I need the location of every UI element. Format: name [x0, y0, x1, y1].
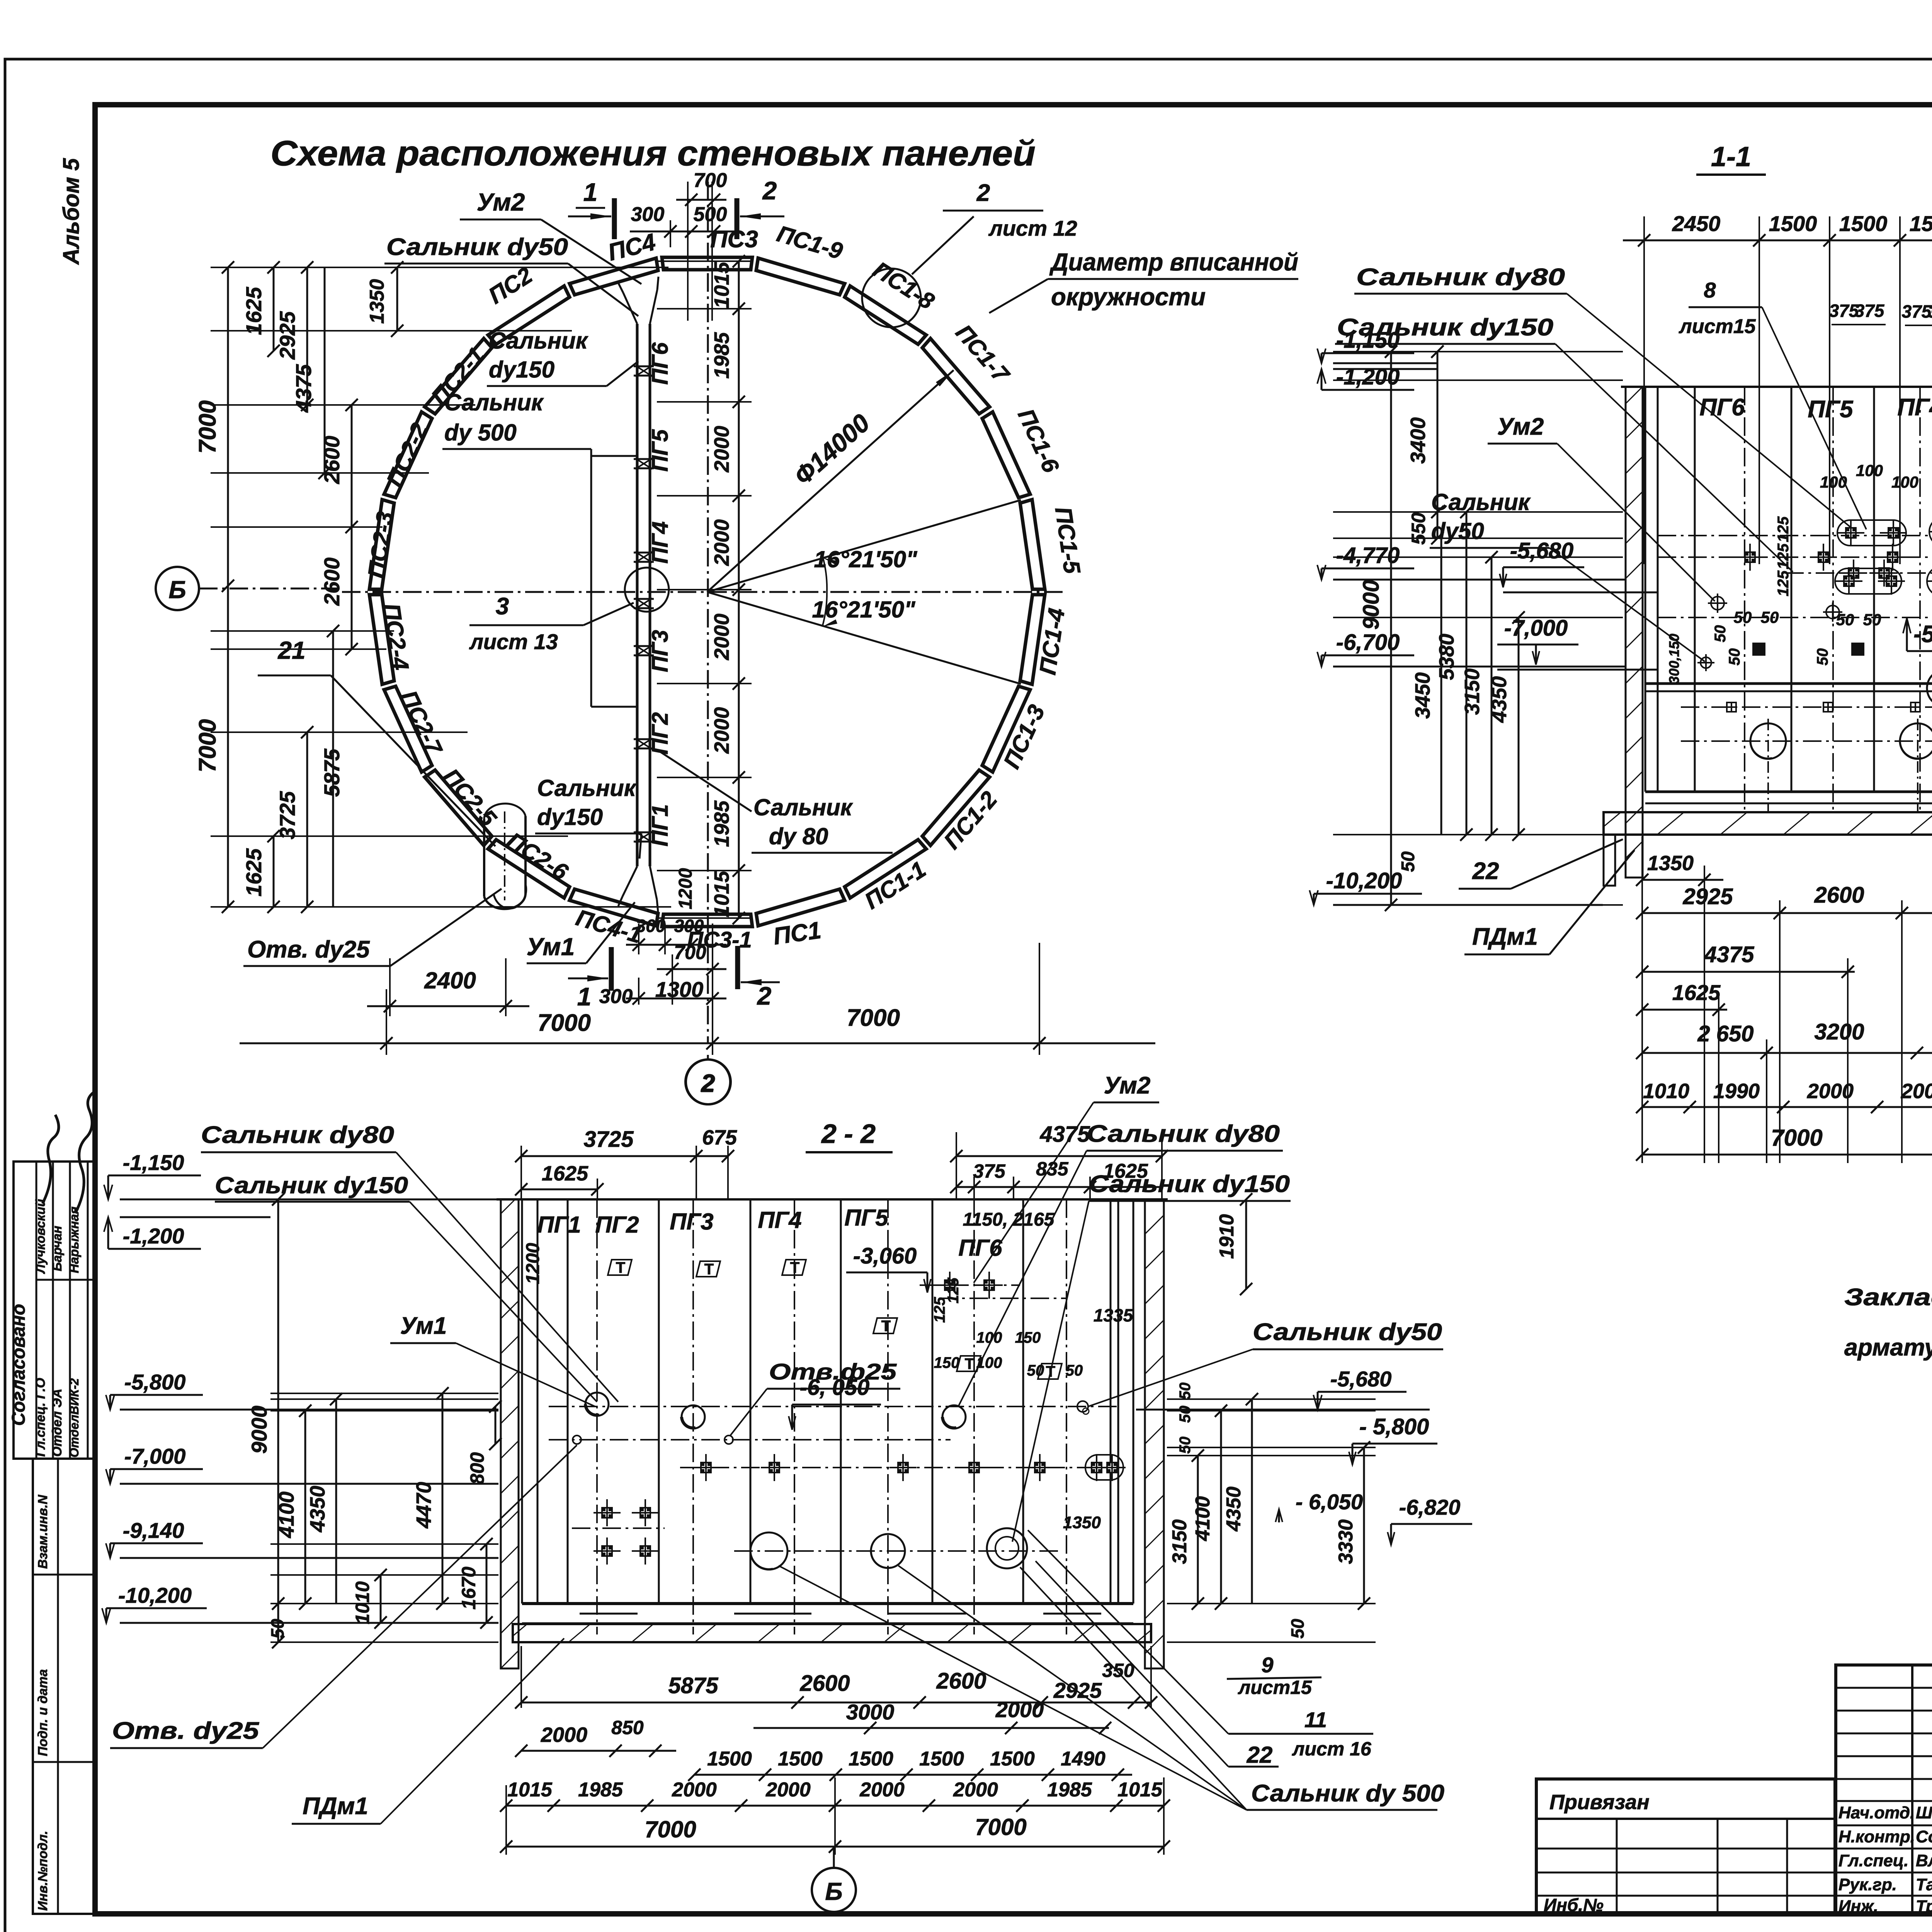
svg-text:2925: 2925 [1053, 1678, 1102, 1702]
svg-text:лист 16: лист 16 [1292, 1738, 1372, 1760]
svg-text:2000: 2000 [953, 1779, 998, 1801]
svg-text:-9,140: -9,140 [123, 1518, 184, 1543]
svg-text:9: 9 [1261, 1653, 1273, 1677]
svg-text:Сальник dу150: Сальник dу150 [215, 1172, 408, 1198]
svg-text:4100: 4100 [275, 1492, 298, 1538]
svg-text:100: 100 [1856, 461, 1883, 480]
svg-text:1500: 1500 [707, 1748, 752, 1770]
svg-text:Взам.инв.N: Взам.инв.N [36, 1494, 50, 1569]
svg-text:2600: 2600 [320, 558, 344, 606]
svg-text:ОтделВИК-2: ОтделВИК-2 [67, 1378, 81, 1458]
wall panel ПС2-3 [369, 500, 394, 589]
1-1 bottom small squares [1727, 702, 1736, 712]
axis bubble Б below 2-2 [812, 1868, 856, 1912]
svg-text:Третьякова: Третьякова [1916, 1897, 1932, 1916]
svg-text:375: 375 [1902, 301, 1932, 321]
svg-text:лист 12: лист 12 [988, 216, 1077, 240]
svg-text:3200: 3200 [1814, 1019, 1864, 1044]
svg-text:Инб.№: Инб.№ [1544, 1895, 1604, 1915]
svg-text:Ум2: Ум2 [1104, 1072, 1151, 1099]
svg-text:375: 375 [973, 1160, 1006, 1182]
svg-text:ПГ5: ПГ5 [844, 1205, 889, 1231]
svg-text:2000: 2000 [710, 519, 733, 566]
svg-text:Т: Т [704, 1261, 714, 1278]
svg-text:7000: 7000 [194, 400, 221, 454]
svg-text:835: 835 [1036, 1158, 1069, 1180]
svg-text:-5,800: -5,800 [1913, 621, 1932, 648]
wall panel ПС1-1 [845, 840, 926, 898]
2-2 interior panel joints [567, 1199, 569, 1604]
svg-text:ПГ2: ПГ2 [648, 712, 673, 755]
wall panel ПС2-6 [488, 840, 570, 898]
svg-text:3725: 3725 [275, 791, 299, 839]
svg-text:100: 100 [1891, 473, 1918, 491]
wall panel ПС3 [662, 257, 752, 270]
svg-text:1015: 1015 [507, 1779, 553, 1801]
centre lines of plan [342, 591, 1066, 593]
svg-text:-6,820: -6,820 [1399, 1495, 1461, 1519]
svg-text:-6, 050: -6, 050 [800, 1375, 870, 1400]
wall panel ПС2 [488, 286, 570, 344]
svg-text:1150, 2165: 1150, 2165 [963, 1209, 1055, 1230]
2-2 top right small squares [944, 1279, 956, 1291]
svg-text:арматуре перегородочной панел: арматуре перегородочной панели [1844, 1334, 1932, 1361]
svg-text:2: 2 [762, 176, 777, 205]
2-2 left wall hatched [501, 1199, 519, 1668]
svg-text:50: 50 [1761, 608, 1779, 626]
svg-text:3150: 3150 [1461, 668, 1484, 715]
wall panel ПС3-1 [662, 914, 752, 927]
svg-text:1015: 1015 [710, 871, 733, 917]
1-1 floor stadium [1927, 670, 1932, 707]
partition strip (ПГ panels row) [636, 324, 639, 866]
svg-text:ПГ6: ПГ6 [1699, 394, 1745, 421]
wall panel ПС1-9 [756, 258, 845, 295]
svg-text:2000: 2000 [1807, 1080, 1854, 1103]
svg-text:2: 2 [976, 180, 990, 206]
svg-text:50: 50 [267, 1619, 287, 1639]
svg-text:Власенко: Власенко [1916, 1851, 1932, 1870]
svg-text:dу50: dу50 [1431, 518, 1484, 544]
wall panel ПС1-3 [982, 686, 1030, 772]
top small dims 700 300 500 [687, 182, 689, 321]
svg-text:-5,680: -5,680 [1330, 1367, 1392, 1391]
svg-text:dу150: dу150 [537, 804, 603, 830]
svg-text:Инв.№подл.: Инв.№подл. [36, 1831, 50, 1911]
svg-text:Барчан: Барчан [50, 1226, 64, 1271]
wall panel ПС4-1 [570, 889, 658, 926]
signature scribbles [43, 1115, 59, 1204]
svg-text:1625: 1625 [542, 1162, 588, 1185]
wall panel ПС2-2 [384, 412, 432, 498]
svg-text:5875: 5875 [320, 748, 344, 797]
svg-text:4100: 4100 [1192, 1496, 1214, 1541]
svg-text:ПГ3: ПГ3 [670, 1209, 713, 1235]
1-1 interior panel joints [1694, 387, 1696, 792]
2-2 floor double line [522, 1602, 1133, 1605]
svg-text:16°21'50": 16°21'50" [812, 597, 916, 622]
wall panel ПС2-7 [384, 686, 432, 772]
2-2 right wall hatched [1145, 1199, 1164, 1668]
svg-text:Гл.спец.: Гл.спец. [1838, 1851, 1908, 1870]
svg-text:Сальник dу150: Сальник dу150 [1089, 1171, 1290, 1197]
svg-text:ПГ4: ПГ4 [648, 521, 673, 564]
svg-text:4470: 4470 [412, 1482, 435, 1529]
detail callout 3 лист 13 [625, 568, 669, 612]
wall panel ПС2-5 [425, 770, 492, 845]
1-1 black plates [1753, 643, 1765, 655]
radial line +16 [707, 592, 1021, 684]
wall panel ПС2-4 [369, 595, 394, 684]
svg-text:1015: 1015 [710, 262, 733, 308]
svg-text:375: 375 [1928, 301, 1932, 321]
svg-text:1985: 1985 [710, 332, 733, 379]
bottom dim chain 2400 [389, 958, 391, 1016]
1-1 small circles [1711, 597, 1724, 610]
1-1 left wall (hatched) [1626, 387, 1643, 878]
1-1 left vertical chains [1390, 352, 1392, 905]
svg-text:Закладные изделия(зачерненные: Закладные изделия(зачерненные) приварить… [1844, 1284, 1932, 1311]
svg-text:2000: 2000 [765, 1779, 811, 1801]
svg-text:2000: 2000 [541, 1723, 587, 1747]
svg-text:Сальник dу80: Сальник dу80 [201, 1122, 394, 1148]
svg-text:1200: 1200 [675, 868, 696, 909]
svg-text:Альбом 5: Альбом 5 [59, 158, 84, 265]
svg-text:1990: 1990 [1713, 1080, 1760, 1103]
svg-text:1985: 1985 [578, 1779, 623, 1801]
svg-text:50: 50 [1726, 648, 1743, 666]
svg-text:1015: 1015 [1117, 1779, 1163, 1801]
svg-text:1625: 1625 [1672, 980, 1721, 1005]
svg-text:Согласовано: Согласовано [9, 1304, 29, 1426]
left dim chains of plan [211, 267, 668, 268]
svg-text:ПГ3: ПГ3 [648, 630, 673, 672]
partition neck bottom [622, 866, 637, 896]
svg-text:675: 675 [702, 1126, 737, 1149]
svg-text:2600: 2600 [936, 1668, 986, 1694]
svg-text:3450: 3450 [1411, 672, 1434, 719]
svg-text:1500: 1500 [1910, 211, 1932, 236]
svg-text:1350: 1350 [1647, 852, 1694, 875]
title block: tall grid [1836, 1665, 1932, 1915]
svg-text:2600: 2600 [1814, 883, 1864, 908]
svg-text:100: 100 [1820, 473, 1847, 491]
svg-text:ПГ1: ПГ1 [537, 1212, 581, 1238]
svg-text:3: 3 [496, 593, 509, 620]
svg-text:3330: 3330 [1335, 1519, 1357, 1564]
wall panel ПС1-2 [922, 770, 990, 845]
svg-text:7000: 7000 [975, 1814, 1026, 1840]
svg-text:150: 150 [934, 1354, 960, 1371]
wall panel ПС1-7 [922, 338, 990, 414]
svg-text:ПГ1: ПГ1 [648, 804, 673, 847]
2-2 panel centrelines [596, 1199, 598, 1634]
svg-text:7000: 7000 [537, 1010, 591, 1036]
wall panel ПС1-6 [982, 412, 1030, 498]
svg-text:Ум1: Ум1 [527, 933, 575, 961]
svg-text:1: 1 [577, 982, 592, 1011]
1-1 top edge [1621, 386, 1932, 388]
svg-text:850: 850 [611, 1717, 644, 1738]
svg-text:Нач.отд.: Нач.отд. [1838, 1803, 1915, 1822]
svg-text:3000: 3000 [846, 1700, 895, 1724]
svg-text:-1,200: -1,200 [123, 1224, 184, 1248]
svg-text:2600: 2600 [799, 1671, 850, 1696]
svg-text:300: 300 [636, 916, 666, 936]
svg-text:Сальник: Сальник [444, 389, 544, 415]
svg-text:Таутамышева: Таутамышева [1916, 1875, 1932, 1894]
svg-text:Т: Т [965, 1355, 974, 1372]
svg-text:50: 50 [1066, 1362, 1083, 1379]
svg-text:2000: 2000 [995, 1697, 1044, 1722]
svg-text:ПГ4: ПГ4 [758, 1207, 801, 1233]
2-2 top edge [497, 1198, 1168, 1201]
svg-text:50: 50 [1836, 611, 1854, 629]
svg-text:-5,680: -5,680 [1510, 538, 1573, 563]
svg-text:1500: 1500 [1839, 211, 1888, 236]
svg-text:500: 500 [694, 203, 727, 226]
svg-text:300: 300 [674, 916, 704, 936]
svg-text:2400: 2400 [424, 968, 476, 993]
svg-text:8: 8 [1704, 278, 1716, 302]
svg-text:2000: 2000 [859, 1779, 905, 1801]
svg-text:50: 50 [1177, 1437, 1194, 1454]
2-2 wall feet below slab [501, 1668, 519, 1670]
svg-text:1490: 1490 [1061, 1748, 1105, 1770]
svg-text:Ум2: Ум2 [477, 188, 525, 216]
svg-text:7000: 7000 [645, 1816, 696, 1842]
svg-text:Сальник: Сальник [537, 775, 637, 801]
svg-text:ПГ4: ПГ4 [1897, 394, 1932, 421]
svg-text:-1,150: -1,150 [1336, 328, 1400, 353]
svg-text:1500: 1500 [778, 1748, 823, 1770]
svg-text:4350: 4350 [1488, 676, 1511, 723]
svg-text:3400: 3400 [1406, 417, 1430, 464]
svg-text:Подп. и дата: Подп. и дата [36, 1669, 50, 1756]
2-2 T marks [608, 1260, 632, 1275]
1-1 bottom slab (hatched) [1604, 812, 1932, 835]
svg-text:Диаметр вписанной: Диаметр вписанной [1049, 248, 1298, 276]
svg-text:Инж.: Инж. [1838, 1897, 1878, 1916]
svg-text:Т: Т [616, 1259, 625, 1276]
svg-text:375: 375 [1855, 301, 1885, 321]
svg-text:Н.контр.: Н.контр. [1838, 1827, 1915, 1846]
svg-text:1985: 1985 [1047, 1779, 1092, 1801]
svg-text:50: 50 [1814, 648, 1831, 666]
svg-text:7000: 7000 [847, 1005, 900, 1031]
2-2 dim rows below [521, 1702, 1151, 1704]
svg-text:300: 300 [599, 985, 633, 1008]
svg-text:Рук.гр.: Рук.гр. [1838, 1875, 1897, 1894]
svg-text:Сальник dу80: Сальник dу80 [1356, 264, 1565, 291]
svg-text:- 6,050: - 6,050 [1296, 1490, 1363, 1514]
svg-text:1985: 1985 [710, 800, 733, 847]
angle arcs [823, 558, 827, 592]
2-2 dash-dot horizontals [549, 1406, 1121, 1407]
svg-text:лист15: лист15 [1678, 315, 1756, 338]
svg-text:окружности: окружности [1051, 283, 1206, 311]
wall panel ПС2-1 [425, 338, 492, 414]
bottom dim chain 7000 7000 [240, 1043, 1155, 1044]
svg-text:-7,000: -7,000 [124, 1444, 186, 1468]
svg-text:550: 550 [1408, 512, 1429, 545]
1-1 inner wall faces [1645, 387, 1646, 792]
svg-text:-1,150: -1,150 [123, 1150, 184, 1175]
svg-text:dу 80: dу 80 [769, 823, 828, 849]
svg-text:1010: 1010 [1643, 1080, 1689, 1103]
svg-text:-5,800: -5,800 [124, 1370, 186, 1394]
svg-text:Т: Т [790, 1259, 799, 1276]
axis bubble 2 above [686, 1060, 731, 1104]
svg-text:2000: 2000 [672, 1779, 717, 1801]
svg-text:11: 11 [1304, 1708, 1327, 1732]
axis bubble 2 below plan [685, 1060, 730, 1104]
svg-text:125: 125 [945, 1277, 962, 1303]
svg-text:50: 50 [1712, 625, 1729, 643]
svg-text:1350: 1350 [366, 279, 388, 324]
partition joint marks [634, 366, 654, 367]
wall panel ПС1-8 [845, 286, 926, 344]
svg-text:1500: 1500 [849, 1748, 893, 1770]
wall panel ПС1-5 [1020, 500, 1045, 589]
svg-text:Отв. dу25: Отв. dу25 [247, 936, 370, 963]
vertical dimension chain right of strip [738, 261, 740, 918]
svg-text:2600: 2600 [320, 436, 344, 485]
wall panel ПС1 [756, 889, 845, 926]
svg-text:Сальник: Сальник [753, 794, 853, 820]
2-2 plate squares mid row [700, 1462, 712, 1473]
left stamp upper table [14, 1162, 95, 1459]
svg-text:Привязан: Привязан [1549, 1791, 1650, 1814]
salnik du500 pipe stub bottom-left [483, 819, 485, 896]
svg-text:22: 22 [1247, 1742, 1273, 1768]
svg-text:ПДм1: ПДм1 [303, 1793, 368, 1820]
svg-text:5875: 5875 [668, 1673, 718, 1698]
svg-text:7000: 7000 [194, 719, 221, 772]
2-2 right chains [1197, 1456, 1199, 1604]
svg-text:Отдел ЭА: Отдел ЭА [50, 1389, 65, 1457]
svg-text:2: 2 [701, 1070, 715, 1097]
svg-text:4350: 4350 [1223, 1486, 1245, 1532]
svg-text:50: 50 [1398, 851, 1418, 872]
1-1 embedded plate squares row1 [1744, 551, 1756, 563]
diameter arrow Ф14000 [707, 370, 954, 592]
svg-text:2 - 2: 2 - 2 [821, 1119, 876, 1149]
svg-text:Сальник: Сальник [1431, 489, 1531, 515]
svg-text:1010: 1010 [352, 1581, 373, 1624]
partition neck top [623, 293, 637, 324]
svg-text:ПГ6: ПГ6 [648, 342, 673, 384]
svg-text:лист15: лист15 [1238, 1677, 1312, 1698]
svg-text:ПГ5: ПГ5 [648, 429, 673, 471]
2-2 left chains [277, 1199, 279, 1642]
svg-text:-7,000: -7,000 [1504, 616, 1568, 641]
svg-text:1500: 1500 [919, 1748, 964, 1770]
svg-text:1350: 1350 [1063, 1513, 1101, 1532]
wall panel ПС4 [570, 258, 658, 295]
svg-text:50: 50 [1734, 608, 1752, 626]
1-1 stadium groups [1837, 520, 1906, 546]
svg-text:7000: 7000 [1771, 1125, 1822, 1151]
svg-text:4375: 4375 [1039, 1122, 1090, 1147]
svg-text:4375: 4375 [1704, 942, 1754, 967]
2-2 extension verticals below [505, 1785, 507, 1855]
left stamp lower table [33, 1459, 95, 1914]
svg-text:- 5,800: - 5,800 [1359, 1414, 1429, 1439]
svg-text:Сокольская: Сокольская [1916, 1827, 1932, 1846]
svg-text:50: 50 [1863, 611, 1881, 629]
bracket for dу500 zone [590, 449, 592, 707]
svg-text:2450: 2450 [1672, 211, 1721, 236]
svg-text:125: 125 [1775, 516, 1792, 542]
svg-text:Сальник dу50: Сальник dу50 [1253, 1319, 1442, 1345]
svg-text:1335: 1335 [1094, 1305, 1134, 1325]
svg-text:Сальник dу50: Сальник dу50 [386, 234, 568, 260]
wall panel ПС1-4 [1020, 595, 1045, 684]
svg-text:-10,200: -10,200 [118, 1583, 192, 1607]
svg-text:Т: Т [881, 1318, 891, 1335]
svg-text:Б: Б [825, 1878, 842, 1905]
svg-text:1500: 1500 [1769, 211, 1817, 236]
svg-text:5380: 5380 [1435, 634, 1458, 680]
svg-text:Лучковский: Лучковский [33, 1199, 48, 1274]
svg-text:лист 13: лист 13 [469, 629, 558, 654]
svg-text:50: 50 [1177, 1406, 1194, 1423]
svg-text:2000: 2000 [1901, 1080, 1932, 1103]
2-2 top dims [521, 1155, 729, 1157]
svg-text:2: 2 [757, 981, 772, 1010]
svg-text:Отв. dу25: Отв. dу25 [112, 1718, 260, 1744]
svg-text:Сальник dу80: Сальник dу80 [1087, 1121, 1280, 1147]
svg-text:dу150: dу150 [489, 357, 554, 383]
svg-text:ПС3: ПС3 [710, 226, 758, 253]
svg-text:Гл.спец. Г.О: Гл.спец. Г.О [33, 1378, 48, 1457]
svg-text:Сальник: Сальник [489, 328, 588, 354]
1-1 squares row2 [1848, 567, 1859, 579]
svg-text:dу 500: dу 500 [444, 420, 517, 446]
svg-text:Шейко: Шейко [1916, 1803, 1932, 1822]
svg-text:50: 50 [1177, 1383, 1194, 1400]
svg-text:300: 300 [631, 203, 665, 226]
svg-text:1625: 1625 [241, 848, 266, 896]
1-1 top dimension row [1623, 240, 1932, 241]
svg-text:4375: 4375 [291, 364, 316, 413]
svg-text:2 650: 2 650 [1697, 1021, 1753, 1046]
привязан block [1536, 1779, 1835, 1915]
svg-text:4350: 4350 [306, 1486, 329, 1532]
svg-text:Б: Б [168, 576, 186, 604]
2-2 square group left [601, 1507, 613, 1519]
svg-text:ПГ6: ПГ6 [958, 1235, 1002, 1261]
svg-text:Нарыжная: Нарыжная [67, 1206, 81, 1273]
svg-text:125: 125 [1775, 570, 1792, 596]
svg-text:700: 700 [674, 942, 706, 963]
1-1 top extension verticals [1643, 216, 1645, 564]
svg-text:350: 350 [1102, 1660, 1134, 1681]
svg-text:Схема расположения стеновых п: Схема расположения стеновых панелей [270, 134, 1036, 173]
extension verticals below 1-1 [1641, 837, 1643, 1163]
svg-text:3725: 3725 [583, 1127, 634, 1152]
svg-text:50: 50 [1027, 1362, 1044, 1379]
svg-text:1: 1 [583, 178, 598, 206]
axis bubble Б left [156, 567, 199, 610]
1-1 bottom big circles [1750, 723, 1786, 759]
svg-text:2925: 2925 [1682, 884, 1733, 909]
1-1 wall feet [1604, 835, 1615, 886]
svg-text:Ум2: Ум2 [1497, 413, 1544, 440]
detail callout circle 2 лист 12 [862, 269, 921, 327]
1-1 panel centrelines [1744, 387, 1745, 811]
